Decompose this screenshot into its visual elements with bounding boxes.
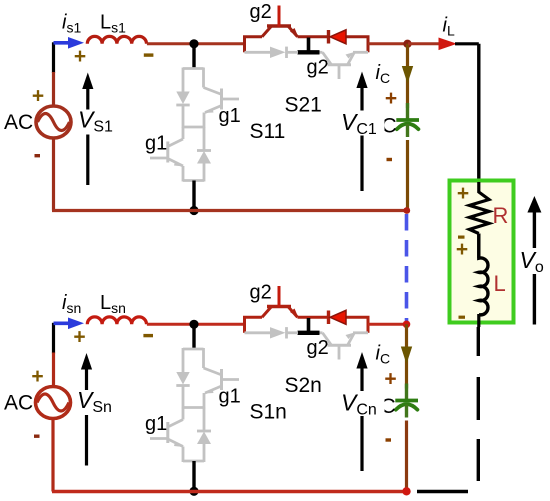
node: bottom cap junction: [403, 207, 410, 214]
voltage arrow VS1: [86, 86, 89, 185]
polarity - of C1: [387, 158, 393, 161]
voltage arrow VSn: [85, 367, 88, 466]
voltage arrow VC1: [360, 86, 363, 191]
wire: left vertical black segment from top corner: [52, 323, 55, 354]
polarity - below R: [458, 236, 465, 239]
switch S11 (gray bidirectional IGBT pair): [150, 68, 239, 182]
wire: S11 top black lead: [192, 44, 195, 69]
wire: cap branch lower brown: [406, 140, 409, 211]
wire: module2 bottom rail: [52, 490, 407, 493]
polarity - of Lsn: [143, 334, 153, 337]
S2n left vertical: [243, 317, 246, 333]
wire: top rail from inductor to S21: [147, 42, 245, 45]
S21 right vertical: [367, 37, 370, 53]
inductor L (load): [479, 234, 488, 315]
switch S21 (red bidirectional IGBT pair): [243, 6, 370, 53]
current arrow iC on wire (olive, down): [401, 347, 412, 365]
common emitter black tee of S2n: [307, 318, 311, 333]
svg-text:AC: AC: [4, 111, 33, 134]
wire below load into dashes: [477, 314, 480, 327]
polarity - of source: [35, 154, 41, 157]
svg-text:+: +: [385, 87, 397, 110]
wire: module1 bottom rail: [52, 209, 407, 212]
wire: left vertical red above AC source: [52, 353, 55, 388]
svg-text:AC: AC: [4, 392, 33, 415]
svg-text:+: +: [32, 85, 44, 108]
inductor Ls1: [87, 36, 146, 43]
svg-text:+: +: [31, 365, 43, 388]
IGBT Q1n upper right, gate right: [202, 348, 205, 368]
load box: [450, 181, 514, 323]
S1n left rail upper: [182, 348, 185, 373]
node: capacitor top junction: [403, 40, 411, 48]
node: capacitor top junction: [403, 321, 411, 329]
svg-text:g1: g1: [145, 413, 167, 435]
svg-text:L: L: [494, 271, 506, 296]
svg-text:g1: g1: [145, 133, 167, 155]
wire: top black to load: [455, 42, 479, 45]
wire: blue dashed series link: [405, 214, 409, 321]
S11 bottom bar: [183, 179, 204, 182]
diode D3n (red, points left): [327, 311, 330, 325]
current arrow isn (blue): [54, 321, 71, 325]
wire: left vertical dark red below AC source: [52, 138, 55, 211]
svg-text:R: R: [493, 203, 509, 228]
wire: S1n bottom black lead: [192, 461, 195, 492]
svg-text:S1n: S1n: [250, 401, 287, 424]
S11 middle bar: [183, 126, 204, 129]
IGBT Q4n (gray, gate down): [320, 331, 323, 334]
inductor Lsn: [87, 317, 146, 324]
polarity - of source: [34, 435, 40, 438]
wire: left vertical black segment from top corner: [52, 42, 55, 73]
AC source Vn circle: [36, 387, 71, 419]
svg-text:g2: g2: [307, 337, 329, 359]
wire: cap branch lower: [405, 421, 408, 492]
IGBT Q4 (gray, gate down): [320, 51, 323, 54]
diode D1 (down): [176, 92, 189, 105]
switch S2n (red bidirectional IGBT pair): [243, 286, 370, 333]
wire: left vertical dark red above AC source: [52, 72, 55, 107]
AC source sine wave: [38, 114, 70, 131]
IGBT Q2 lower left, gate left: [182, 127, 185, 139]
svg-text:+: +: [73, 326, 85, 349]
svg-text:g1: g1: [219, 386, 241, 408]
svg-text:S2n: S2n: [285, 374, 322, 397]
IGBT Q1 upper right, gate right: [202, 68, 205, 88]
current arrow iL (red head): [408, 42, 440, 45]
S2n top rail: [243, 316, 262, 319]
AC source V1 circle: [36, 106, 71, 138]
diode D3 (red, points left): [327, 30, 330, 44]
diode D2 (up): [203, 127, 206, 151]
node: S1n top junction: [189, 320, 198, 329]
wire: S11 bottom black lead: [192, 181, 195, 211]
IGBT Q2n lower left, gate left: [182, 408, 185, 420]
wire between R and L: [477, 234, 480, 259]
svg-text:g2: g2: [250, 1, 272, 23]
node: bottom cap junction: [402, 487, 410, 495]
S1n middle bar: [183, 406, 204, 409]
S11 left rail upper: [182, 68, 185, 93]
S11 top bar: [183, 67, 204, 70]
svg-text:+: +: [74, 45, 86, 68]
voltage arrow Vo: [533, 274, 536, 325]
S21 left vertical: [243, 37, 246, 53]
S1n bottom bar: [183, 460, 204, 463]
S21 bottom rail (gray) with diode and IGBT: [245, 47, 369, 79]
wire: left vertical red below AC source: [51, 418, 54, 492]
svg-text:S11: S11: [250, 120, 286, 143]
IGBT Q3n (red, gate up): [262, 307, 272, 318]
current arrow is1 (blue): [54, 41, 71, 45]
wire: cap branch upper brown: [405, 324, 408, 388]
svg-text:g1: g1: [219, 105, 241, 127]
svg-text:g2: g2: [307, 57, 329, 79]
dashed return wire horizontal segment: [417, 490, 468, 493]
polarity - of Cn: [386, 438, 392, 441]
dashed return wire segments: [477, 327, 480, 356]
wire: S1n top black lead: [192, 324, 195, 349]
svg-text:S21: S21: [285, 94, 322, 117]
wire: top rail from inductor to S2n: [147, 323, 245, 326]
AC source sine wave: [37, 394, 69, 411]
wire: top rail S21 to cap node: [368, 42, 408, 45]
node: S11 bottom junction: [189, 206, 198, 215]
current arrow iC on wire (olive, down): [402, 66, 413, 84]
voltage arrow VCn: [360, 367, 363, 472]
resistor R: [469, 182, 489, 234]
S21 top rail: [243, 35, 262, 38]
common emitter black tee of S21: [307, 38, 311, 53]
polarity - of Ls1: [144, 53, 154, 56]
S1n top bar: [183, 348, 204, 351]
wire: cap branch upper brown: [406, 44, 409, 108]
wire: top rail S2n to cap node: [368, 323, 408, 326]
capacitor C1 (green): [406, 103, 409, 119]
diode D4n (gray, points right): [270, 327, 286, 338]
IGBT Q3 (red, gate up): [262, 26, 272, 37]
node: S11 top junction: [189, 39, 198, 48]
svg-text:+: +: [457, 182, 469, 205]
diode D2n (up): [203, 408, 206, 432]
diode D4 (gray, points right): [270, 47, 286, 58]
diode D1n (down): [176, 372, 189, 385]
svg-text:+: +: [456, 238, 468, 261]
S2n bottom rail (gray) with diode and IGBT: [245, 327, 369, 359]
svg-text:+: +: [384, 368, 396, 391]
S2n right vertical: [367, 317, 370, 333]
capacitor Cn (green): [405, 384, 408, 400]
node: S1n bottom junction: [189, 487, 198, 496]
polarity - below L: [459, 316, 466, 319]
svg-text:g2: g2: [250, 282, 272, 304]
switch S1n (gray bidirectional IGBT pair): [150, 348, 239, 462]
